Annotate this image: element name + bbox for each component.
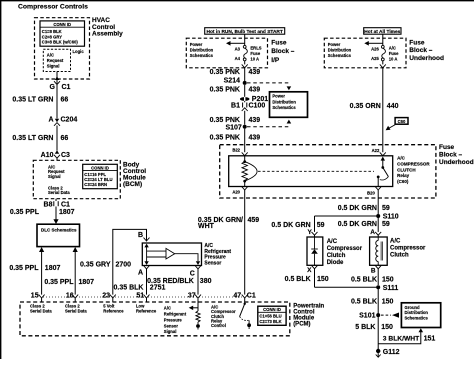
svg-text:2700: 2700 [116, 262, 132, 269]
PCM pin function: A/C Refrigerant Pressure Sensor Signal [164, 306, 187, 335]
arrow up into DLC (right) [73, 247, 78, 295]
svg-text:439: 439 [249, 117, 261, 124]
PCM CONN ID table [258, 306, 286, 325]
connector B8 C1 [44, 199, 71, 209]
svg-text:ERLS: ERLS [250, 45, 261, 50]
Body Control Module dashed box [33, 160, 120, 198]
svg-text:A10: A10 [41, 152, 54, 159]
svg-text:3 BLK/WHT: 3 BLK/WHT [383, 336, 420, 343]
svg-text:Power: Power [328, 42, 341, 47]
svg-text:Clutch: Clutch [390, 252, 409, 258]
Powertrain Control Module dashed box [20, 302, 290, 336]
svg-text:C1: C1 [61, 201, 70, 208]
svg-text:G112: G112 [383, 349, 400, 356]
wire HVAC output to G C1 [56, 72, 58, 84]
svg-text:Distribution: Distribution [328, 48, 352, 53]
svg-text:Refrigerant: Refrigerant [164, 312, 187, 317]
fuse output wire + connector at IP boundary [242, 61, 248, 81]
ground G112 [376, 349, 400, 357]
svg-text:Power: Power [190, 42, 203, 47]
Fuse Block IP label [271, 39, 295, 64]
pin 37 [188, 293, 201, 302]
connector B20 [367, 187, 381, 214]
svg-text:Serial Data: Serial Data [65, 309, 87, 314]
svg-text:C100: C100 [249, 103, 266, 110]
svg-text:A/C: A/C [390, 239, 401, 245]
svg-text:0.5 BLK: 0.5 BLK [351, 298, 377, 305]
svg-text:Underhood: Underhood [409, 55, 444, 62]
svg-text:G: G [50, 84, 56, 91]
svg-text:0.35 PNK: 0.35 PNK [210, 87, 240, 94]
svg-text:0.5 DK GRN: 0.5 DK GRN [338, 205, 377, 212]
svg-text:Signal: Signal [47, 63, 60, 68]
A/C Compressor Clutch Diode box [307, 237, 323, 265]
A/C Compressor Clutch box [370, 237, 388, 265]
svg-text:0.35 ORN: 0.35 ORN [350, 103, 381, 110]
PCM pin function: 5 Volt Reference [103, 304, 124, 314]
svg-text:A: A [138, 269, 143, 276]
svg-text:CLUTCH: CLUTCH [397, 167, 416, 172]
svg-text:B20: B20 [367, 191, 375, 196]
Fuse Block Underhood main dashed box [220, 145, 436, 198]
wire 0.35 PNK 439 (2) [210, 85, 261, 97]
svg-text:66: 66 [61, 97, 69, 104]
svg-text:Schematics: Schematics [272, 105, 296, 110]
AC fuse output + connector [380, 61, 386, 152]
svg-text:(C60): (C60) [397, 179, 409, 184]
svg-text:Block –: Block – [271, 48, 295, 55]
svg-text:A: A [370, 229, 375, 236]
Fuse Block Underhood top dashed box [324, 38, 406, 68]
diode symbol [311, 237, 318, 265]
svg-text:WHT: WHT [198, 223, 215, 230]
pin 47 C1 [233, 293, 255, 302]
svg-text:0.35 GRY: 0.35 GRY [80, 262, 111, 269]
svg-text:CONN ID: CONN ID [53, 22, 71, 27]
PCM internal resistor at pin 37 [189, 302, 200, 330]
svg-text:Fuse: Fuse [409, 39, 425, 46]
svg-text:Block –: Block – [409, 47, 433, 54]
svg-text:Sensor: Sensor [204, 260, 221, 266]
svg-text:0.5 DK GRN: 0.5 DK GRN [338, 221, 377, 228]
node G C1 [50, 84, 71, 91]
svg-text:2751: 2751 [150, 285, 166, 292]
svg-text:B22: B22 [232, 148, 240, 153]
svg-text:Hot in RUN, Bulb Test and STAR: Hot in RUN, Bulb Test and START [207, 29, 283, 35]
wire 0.5 DK GRN 59 (B20) [338, 205, 390, 212]
svg-text:Power: Power [272, 94, 285, 99]
HVAC CONN ID table [40, 21, 85, 46]
svg-text:Control: Control [211, 323, 226, 328]
svg-text:Compressor: Compressor [390, 245, 426, 251]
wire 0.35 GRY 2700 (sensor B to pin 23) [80, 229, 146, 294]
svg-text:Underhood: Underhood [439, 159, 474, 166]
wire 0.5 BLK 150 (clutch) [351, 276, 394, 283]
C60 callout [386, 118, 408, 131]
svg-text:Compressor Controls: Compressor Controls [18, 4, 88, 11]
svg-text:0.35 PNK: 0.35 PNK [210, 69, 240, 76]
arrow into DLC box [53, 219, 58, 224]
svg-text:Signal: Signal [48, 174, 61, 179]
svg-text:Fuse: Fuse [439, 144, 455, 151]
svg-text:(BCM): (BCM) [123, 181, 142, 188]
svg-text:Request: Request [47, 58, 64, 63]
connector B1 C100 [231, 101, 265, 111]
svg-text:Schematics: Schematics [328, 53, 352, 58]
svg-text:440: 440 [387, 103, 399, 110]
Hot at All Times header box [364, 28, 401, 35]
svg-text:0.35 PNK: 0.35 PNK [210, 117, 240, 124]
svg-text:A25: A25 [371, 56, 379, 61]
connector X at diode [307, 265, 317, 287]
svg-text:S214: S214 [224, 78, 240, 85]
svg-text:Relay: Relay [397, 173, 410, 178]
BCM Class 2 Serial Data text [48, 185, 70, 195]
svg-text:Fuse: Fuse [250, 51, 260, 56]
PCM dotted connector link line [43, 296, 243, 298]
svg-text:Distribution: Distribution [272, 99, 296, 104]
arrow to power distribution (underhood) [364, 41, 383, 46]
splice S107 [225, 120, 291, 132]
sensor label [204, 243, 231, 266]
svg-text:Serial Data: Serial Data [30, 309, 52, 314]
pin 51 [136, 293, 149, 302]
svg-text:Fuse: Fuse [271, 39, 287, 46]
svg-text:B1: B1 [231, 103, 240, 110]
svg-text:66: 66 [61, 135, 69, 142]
wire branch to diode [315, 215, 379, 217]
wire 0.35 PPL 1807 to DLC [10, 207, 75, 220]
wire 0.35 LT GRN 66 upper [12, 85, 68, 119]
connector C204 [48, 117, 77, 126]
svg-text:0.35 PPL: 0.35 PPL [44, 279, 74, 286]
svg-text:C3: C3 [61, 152, 70, 159]
svg-text:A/C: A/C [327, 239, 338, 245]
Logic label [73, 49, 85, 54]
svg-text:439: 439 [249, 87, 261, 94]
arrow to power distribution (IP) [226, 41, 245, 46]
wire 3 BLK/WHT 151 [378, 328, 435, 344]
Fuse Block IP dashed box [186, 38, 267, 68]
connector Y at diode [307, 229, 317, 237]
svg-text:A4: A4 [235, 56, 241, 61]
svg-text:459: 459 [248, 217, 260, 224]
PCM pin function: A/C Compressor Clutch Relay Control [211, 304, 236, 328]
connector A at clutch [370, 229, 381, 237]
clutch coil [376, 237, 383, 265]
svg-text:439: 439 [249, 69, 261, 76]
svg-text:Compressor: Compressor [327, 246, 363, 252]
Power Distribution Schematics text (IP) [190, 42, 214, 58]
svg-text:10 A: 10 A [250, 57, 259, 62]
svg-text:59: 59 [382, 205, 390, 212]
grommet P201 [240, 96, 268, 103]
svg-text:CONN ID: CONN ID [91, 166, 109, 171]
A/C Refrigerant Pressure Sensor box [142, 243, 201, 266]
svg-text:Pressure: Pressure [164, 317, 183, 322]
svg-text:51: 51 [136, 293, 144, 300]
svg-text:A: A [48, 117, 53, 124]
diode label [327, 239, 363, 266]
svg-text:I/P: I/P [271, 57, 280, 64]
connector A at sensor [138, 266, 150, 295]
wire 0.35 PNK 439 (3) [210, 111, 261, 125]
svg-text:0.35 LT GRN: 0.35 LT GRN [12, 135, 53, 142]
svg-text:0.5 BLK: 0.5 BLK [285, 276, 311, 283]
pin 15 [31, 293, 45, 302]
arrow up into DLC (left) [39, 247, 44, 295]
svg-text:15: 15 [31, 293, 39, 300]
svg-text:Diode: Diode [327, 260, 344, 266]
wire from header to fuse [244, 34, 246, 45]
svg-text:0.35 BLK: 0.35 BLK [114, 285, 144, 292]
svg-text:COMPRESSOR: COMPRESSOR [397, 161, 430, 166]
title Compressor Controls [18, 4, 88, 11]
ERLS fuse 10A [235, 45, 262, 61]
svg-text:151: 151 [424, 336, 436, 343]
PCM pin function: Low Reference [136, 304, 157, 314]
svg-text:150: 150 [381, 324, 393, 331]
BCM CONN ID table [83, 164, 118, 188]
svg-text:0.35 PPL: 0.35 PPL [9, 265, 39, 272]
wire 0.35 PPL 1807 (pin 15) label [9, 265, 60, 272]
svg-text:1807: 1807 [45, 265, 61, 272]
svg-text:S111: S111 [383, 285, 399, 292]
svg-text:0.5 BLK: 0.5 BLK [351, 276, 377, 283]
connector A22 [372, 148, 386, 156]
svg-text:DLC Schematics: DLC Schematics [41, 228, 77, 233]
svg-text:(PCM): (PCM) [293, 321, 310, 327]
svg-text:150: 150 [382, 276, 394, 283]
DLC Schematics box [37, 224, 80, 246]
sensor internal circuit [144, 244, 200, 265]
svg-text:37: 37 [188, 293, 196, 300]
svg-text:C60: C60 [398, 119, 406, 124]
connector C at sensor [190, 266, 201, 295]
svg-text:0.35 RED/BLK: 0.35 RED/BLK [147, 278, 194, 285]
svg-text:0.35 PNK: 0.35 PNK [210, 135, 240, 142]
svg-text:Block –: Block – [439, 152, 463, 159]
Fuse Block Underhood label (top) [409, 39, 444, 62]
PCM internal switch at pin 47 [240, 302, 251, 329]
connector A20 [232, 187, 247, 295]
svg-text:S101: S101 [359, 313, 375, 320]
svg-text:1807: 1807 [79, 279, 95, 286]
connector terminal at HVAC boundary [54, 76, 60, 84]
svg-text:A/C: A/C [47, 52, 54, 57]
wire 0.5 BLK 150 (diode) [285, 276, 379, 287]
svg-text:S110: S110 [383, 214, 399, 221]
svg-text:10 A: 10 A [389, 57, 398, 62]
svg-text:Reference: Reference [103, 309, 124, 314]
svg-text:1807: 1807 [59, 209, 75, 216]
svg-text:X: X [307, 267, 312, 274]
connector B22 [232, 148, 247, 156]
svg-text:439: 439 [249, 135, 261, 142]
svg-text:0.35 PPL: 0.35 PPL [10, 209, 40, 216]
svg-text:16: 16 [66, 293, 74, 300]
border frame left [0, 0, 2, 359]
Fuse Block Underhood label (main) [439, 144, 474, 166]
svg-text:Fuse: Fuse [389, 51, 399, 56]
svg-text:C1: C1 [247, 293, 256, 300]
A/C Compressor Clutch Relay box [229, 156, 393, 187]
svg-text:5 BLK: 5 BLK [355, 324, 375, 331]
splice S110 [376, 214, 399, 221]
wire 0.35 PPL 1807 (pin 16) label [44, 279, 94, 286]
svg-text:C3=24 BRN: C3=24 BRN [84, 182, 107, 187]
svg-text:59: 59 [317, 222, 325, 229]
svg-text:A/C: A/C [389, 45, 396, 50]
svg-text:A22: A22 [372, 148, 380, 153]
A/C fuse 10A [371, 45, 399, 61]
svg-text:150: 150 [382, 298, 394, 305]
wire 0.35 RED/BLK 380 label [147, 278, 211, 285]
wire 0.5 DK GRN 59 (to diode Y) [271, 216, 324, 232]
svg-text:C1=56 BLU: C1=56 BLU [259, 314, 281, 319]
svg-text:Clutch: Clutch [327, 253, 346, 259]
wire 0.35 DK GRN/WHT 459 [198, 217, 259, 230]
relay switch [377, 157, 389, 187]
wire 0.35 LT GRN 66 lower [12, 126, 68, 151]
svg-text:B: B [371, 267, 376, 274]
wire from header to AC fuse [382, 34, 384, 45]
wire 0.5 BLK 150 (below S111) [351, 287, 394, 351]
svg-text:59: 59 [382, 221, 390, 228]
svg-text:Hot at All Times: Hot at All Times [364, 29, 400, 35]
svg-text:Schematics: Schematics [190, 53, 214, 58]
connector B at sensor [138, 232, 150, 241]
svg-text:A/C: A/C [164, 306, 171, 311]
Hot in RUN header box [205, 28, 285, 35]
wire 0.35 BLK 2751 label [114, 285, 166, 292]
pin 23 [102, 293, 116, 302]
BCM A/C Request Signal text [48, 164, 65, 179]
A/C Request Signal inner dashed box (HVAC) [43, 49, 70, 71]
svg-text:C: C [190, 270, 195, 277]
Body Control Module (BCM) label [123, 162, 146, 189]
splice S111 [376, 285, 398, 292]
svg-text:Serial Data: Serial Data [48, 190, 70, 195]
svg-text:0.35 LT GRN: 0.35 LT GRN [12, 97, 53, 104]
svg-text:0.5 DK GRN: 0.5 DK GRN [271, 222, 310, 229]
wire 0.35 ORN 440 [350, 103, 399, 110]
svg-text:S107: S107 [225, 125, 241, 132]
splice S101 [359, 313, 399, 320]
svg-text:Signal: Signal [164, 329, 177, 334]
wire 0.5 DK GRN 59 (to clutch A) [338, 216, 390, 232]
svg-text:47: 47 [233, 293, 241, 300]
svg-text:B8: B8 [44, 201, 53, 208]
svg-text:Sensor: Sensor [164, 323, 179, 328]
Power Distribution Schematics text (underhood) [328, 42, 352, 58]
relay label [397, 156, 430, 184]
svg-text:A26: A26 [371, 46, 379, 51]
svg-text:Assembly: Assembly [92, 31, 123, 38]
relay coil [242, 156, 257, 187]
svg-text:Logic: Logic [73, 49, 85, 54]
border frame top [0, 0, 474, 2]
svg-text:A/C: A/C [397, 156, 406, 161]
HVAC Control Assembly dashed box [35, 18, 90, 79]
svg-text:150: 150 [317, 276, 329, 283]
svg-text:23: 23 [102, 293, 110, 300]
svg-text:Schematics: Schematics [405, 315, 429, 320]
svg-text:C3=8 BLK (w/C60): C3=8 BLK (w/C60) [42, 40, 79, 45]
svg-text:C2=73 BLK: C2=73 BLK [259, 319, 281, 324]
svg-text:B: B [138, 232, 143, 239]
splice S214 [224, 78, 292, 91]
svg-text:Distribution: Distribution [190, 48, 214, 53]
clutch label [390, 239, 426, 259]
Power Distribution Schematics box (solid) [270, 92, 308, 118]
connector B at clutch [371, 265, 381, 285]
connector A10 C3 at BCM [41, 150, 70, 160]
relay mechanical dashed link [258, 170, 374, 172]
svg-text:380: 380 [200, 278, 212, 285]
svg-text:C1: C1 [62, 84, 71, 91]
wire 0.35 PNK 439 (4) [210, 129, 261, 153]
svg-text:CONN ID: CONN ID [263, 307, 281, 312]
Ground Distribution Schematics box [401, 303, 440, 328]
PCM pin function: Class 2 Serial Data (16) [65, 304, 87, 314]
svg-text:C204: C204 [61, 117, 78, 124]
HVAC Control Assembly label [92, 17, 123, 38]
svg-text:A20: A20 [232, 190, 240, 195]
PCM pin function: Class 2 Serial Data (15) [30, 304, 52, 314]
svg-text:A3: A3 [235, 46, 241, 51]
pin 16 [66, 293, 78, 302]
Powertrain Control Module (PCM) label [293, 303, 324, 327]
wire 0.35 PNK 439 (1) [210, 69, 261, 76]
wire 5 BLK 150 [355, 324, 393, 331]
svg-text:Reference: Reference [136, 309, 157, 314]
